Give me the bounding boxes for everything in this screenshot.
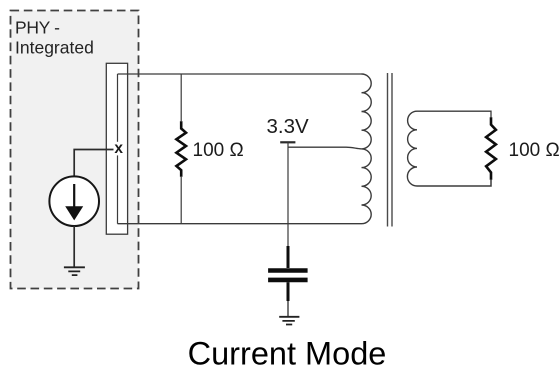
ground (current source) <box>64 267 85 275</box>
wire 3.3V down to capacitor <box>287 142 289 246</box>
pin rectangle (PHY boundary) <box>106 63 127 234</box>
wire inner vertical (pin column) <box>117 74 119 224</box>
svg-text:Integrated: Integrated <box>15 38 94 58</box>
svg-text:100 Ω: 100 Ω <box>193 140 244 161</box>
resistor R2 100 ohm right <box>486 117 496 180</box>
wire 3.3V to transformer center tap <box>288 147 362 149</box>
transformer T1 secondary winding <box>407 111 417 186</box>
wire top (node x to transformer primary top) <box>118 73 362 75</box>
wire secondary bottom <box>417 180 491 186</box>
current source I1 <box>49 176 99 226</box>
ground (capacitor) <box>279 317 299 325</box>
wire bottom (node x to transformer primary bottom) <box>118 223 362 225</box>
svg-text:Current Mode: Current Mode <box>188 336 387 372</box>
svg-text:x: x <box>114 140 123 157</box>
resistor R1 100 ohm left <box>180 74 182 121</box>
svg-text:100 Ω: 100 Ω <box>509 140 560 161</box>
wire current source to node x <box>74 150 113 177</box>
svg-text:3.3V: 3.3V <box>267 115 309 138</box>
PHY dashed box <box>11 11 139 289</box>
svg-text:PHY -: PHY - <box>15 18 60 38</box>
3.3V supply tick <box>280 141 295 143</box>
transformer core <box>388 73 393 227</box>
wire capacitor to ground <box>287 301 289 317</box>
transformer T1 primary winding (center tapped) <box>362 74 372 224</box>
wire current source to ground <box>73 226 75 267</box>
capacitor C1 <box>287 246 290 268</box>
node x <box>113 142 125 156</box>
wire secondary top <box>417 111 491 117</box>
